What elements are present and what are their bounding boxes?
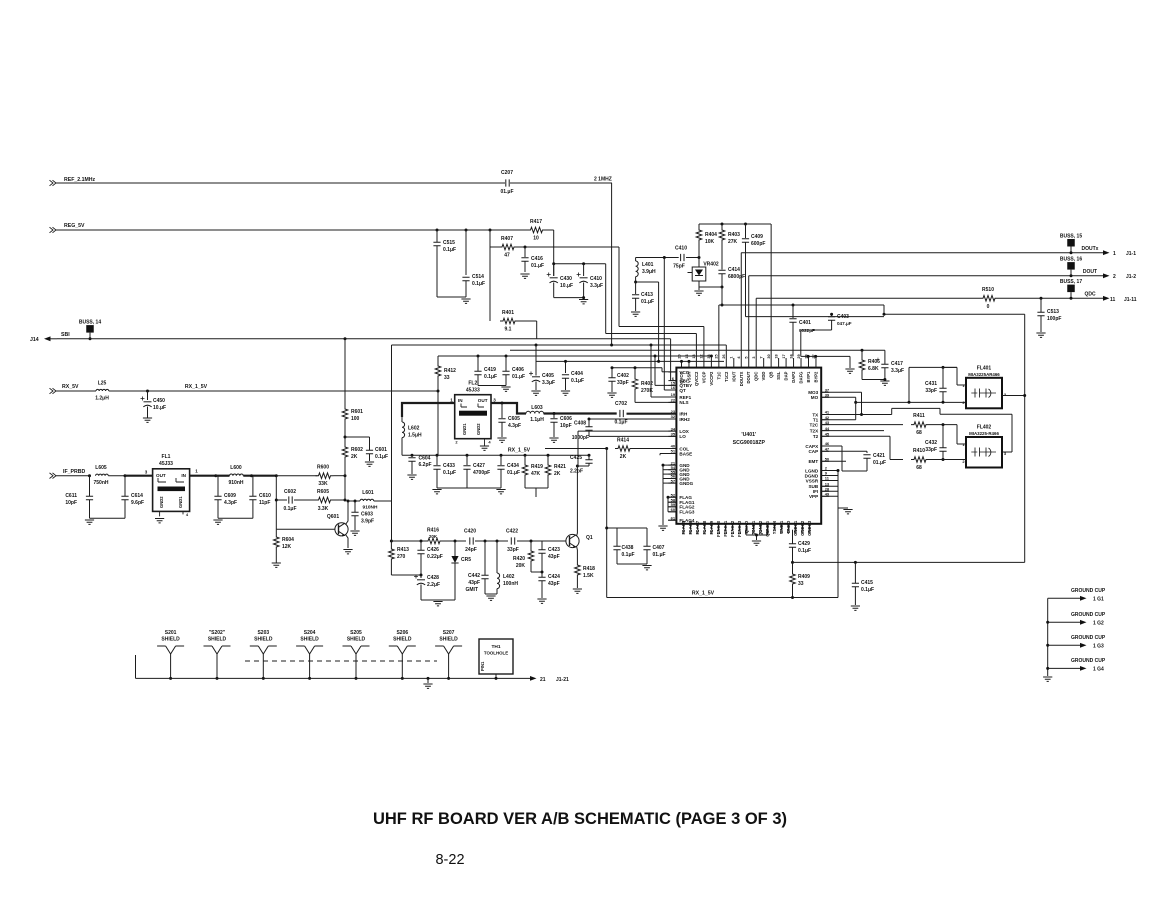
capacitor C425 bbox=[588, 455, 590, 459]
svg-text:01.μF: 01.μF bbox=[500, 189, 513, 195]
capacitor C401 bbox=[792, 305, 794, 318]
svg-text:DOUT: DOUT bbox=[1083, 269, 1097, 275]
svg-text:SBI: SBI bbox=[61, 332, 70, 338]
capacitor C605 bbox=[501, 403, 503, 418]
svg-text:VCCP: VCCP bbox=[701, 371, 706, 383]
svg-text:C428: C428 bbox=[427, 575, 439, 581]
svg-text:FL2: FL2 bbox=[468, 381, 477, 387]
svg-text:QVCC: QVCC bbox=[679, 372, 684, 384]
svg-text:MO: MO bbox=[811, 395, 819, 400]
capacitor C422 bbox=[511, 537, 514, 544]
svg-text:SHIELD: SHIELD bbox=[161, 637, 180, 643]
svg-text:9.1: 9.1 bbox=[505, 327, 512, 333]
ground FL1 bbox=[155, 519, 164, 523]
svg-text:01.μF: 01.μF bbox=[512, 374, 525, 380]
svg-text:R416: R416 bbox=[427, 528, 439, 534]
svg-text:L401: L401 bbox=[642, 262, 654, 268]
capacitor C450 polarized bbox=[147, 391, 149, 400]
wire C414 net L1 bbox=[719, 304, 884, 306]
wire U401 right pin stubs bbox=[821, 391, 829, 393]
wire MO3 to C431 bbox=[909, 366, 957, 368]
wire U401 GND pins chain bbox=[662, 465, 664, 483]
wire U401 FLAG stubs bbox=[668, 496, 676, 498]
svg-text:R410: R410 bbox=[913, 448, 925, 454]
svg-text:50: 50 bbox=[825, 457, 830, 462]
wire R417 out drop bbox=[553, 230, 555, 276]
capacitor C402 bbox=[611, 368, 613, 378]
svg-text:43pF: 43pF bbox=[548, 581, 560, 587]
svg-text:49: 49 bbox=[787, 530, 791, 534]
svg-text:LOX: LOX bbox=[679, 429, 689, 434]
svg-text:01.μF: 01.μF bbox=[873, 460, 886, 466]
svg-text:DOUTx: DOUTx bbox=[1082, 246, 1099, 252]
resistor R418 bbox=[575, 563, 581, 577]
svg-text:VCCP2: VCCP2 bbox=[709, 371, 714, 386]
capacitor C415 bbox=[854, 562, 856, 583]
svg-text:43pF: 43pF bbox=[548, 554, 560, 560]
svg-text:L402: L402 bbox=[503, 574, 515, 580]
svg-text:S206: S206 bbox=[396, 630, 408, 636]
inductor L602 bbox=[401, 417, 403, 422]
svg-text:R601: R601 bbox=[351, 409, 363, 415]
svg-text:2K: 2K bbox=[554, 471, 561, 477]
wire C430 top stub bbox=[553, 264, 555, 276]
svg-text:RX_1_5V: RX_1_5V bbox=[508, 448, 531, 454]
svg-text:S203: S203 bbox=[257, 630, 269, 636]
wire FL401 in1 bbox=[956, 367, 958, 385]
svg-text:CAPX: CAPX bbox=[805, 444, 819, 449]
wire bus A bbox=[605, 264, 607, 334]
wire C611-C614 gnd rail bbox=[90, 517, 126, 519]
capacitor C405 polarized bbox=[535, 344, 538, 347]
resistor R411 bbox=[911, 422, 929, 428]
capacitor C408 1000pF bbox=[588, 419, 590, 427]
svg-text:C417: C417 bbox=[891, 361, 903, 367]
wire Q601 emitter bbox=[346, 535, 349, 549]
svg-text:R600: R600 bbox=[317, 465, 329, 471]
svg-text:3.9pF: 3.9pF bbox=[361, 519, 374, 525]
resistor R407 bbox=[499, 244, 517, 250]
svg-text:0.1μF: 0.1μF bbox=[443, 247, 456, 253]
svg-text:DAP2: DAP2 bbox=[791, 371, 796, 383]
capacitor C427 bbox=[466, 455, 468, 465]
filter FL2 bbox=[455, 395, 491, 439]
svg-text:45: 45 bbox=[825, 432, 830, 437]
wire C442-L402 gnd bbox=[485, 593, 497, 595]
wire ground cup G2 bbox=[1048, 621, 1080, 623]
wire shield dashed link bbox=[245, 660, 437, 662]
capacitor C429 bbox=[792, 530, 794, 544]
svg-text:FL402: FL402 bbox=[977, 425, 992, 431]
svg-text:910nH: 910nH bbox=[228, 480, 243, 486]
svg-text:53: 53 bbox=[759, 530, 763, 534]
svg-text:C401: C401 bbox=[799, 320, 811, 326]
wire T2C line bbox=[821, 424, 903, 426]
svg-text:R605: R605 bbox=[317, 489, 329, 495]
wire LOX line bbox=[578, 430, 676, 432]
ground C404 bbox=[561, 391, 570, 395]
svg-text:RX_1_5V: RX_1_5V bbox=[185, 384, 208, 390]
svg-text:J1-2: J1-2 bbox=[1126, 274, 1136, 280]
filter FL402 bbox=[966, 437, 1002, 468]
svg-text:1000pF: 1000pF bbox=[572, 435, 589, 441]
svg-text:S204: S204 bbox=[304, 630, 316, 636]
capacitor C430 polarized bbox=[550, 277, 558, 279]
inductor L401 bbox=[635, 258, 637, 262]
ground C415 bbox=[851, 606, 860, 610]
svg-text:32: 32 bbox=[671, 414, 676, 419]
wire osc top line bbox=[391, 540, 425, 542]
svg-text:C407: C407 bbox=[653, 545, 665, 551]
svg-text:NLS: NLS bbox=[679, 400, 688, 405]
svg-text:DOUT: DOUT bbox=[746, 371, 751, 383]
capacitor C702 bbox=[620, 410, 623, 417]
svg-text:10pF: 10pF bbox=[65, 500, 77, 506]
resistor R402 bbox=[634, 368, 636, 377]
svg-text:7: 7 bbox=[759, 356, 763, 358]
svg-text:GROUND CUP: GROUND CUP bbox=[1071, 658, 1106, 664]
ground cup gnd bbox=[1043, 677, 1052, 681]
wire QDC arrow bbox=[1103, 296, 1110, 301]
svg-text:VSSH: VSSH bbox=[686, 372, 691, 383]
svg-text:33pF: 33pF bbox=[925, 388, 937, 394]
wire DOUT arrow bbox=[1103, 273, 1110, 278]
capacitor C428 polarized bbox=[420, 575, 422, 578]
inductor L402 bbox=[496, 541, 498, 573]
svg-text:SCG90018ZP: SCG90018ZP bbox=[733, 440, 766, 446]
resistor R404 bbox=[698, 224, 700, 228]
svg-text:0: 0 bbox=[987, 304, 990, 310]
wire C409 net L2 bbox=[746, 316, 885, 318]
resistor R419 bbox=[524, 455, 526, 463]
svg-text:QVCC2: QVCC2 bbox=[694, 371, 699, 386]
resistor R409 bbox=[792, 562, 794, 572]
wire U401 left pin stubs bbox=[668, 371, 676, 373]
svg-text:48: 48 bbox=[794, 530, 798, 534]
svg-text:750nH: 750nH bbox=[93, 480, 108, 486]
svg-text:RX_5V: RX_5V bbox=[62, 384, 79, 390]
wire C414 drop bbox=[721, 287, 723, 305]
capacitor C603 bbox=[354, 500, 357, 503]
svg-text:CR5: CR5 bbox=[461, 557, 471, 563]
wire REF1 drop bbox=[650, 345, 652, 397]
svg-text:1 G3: 1 G3 bbox=[1093, 643, 1104, 649]
wire T1 line bbox=[821, 419, 856, 421]
svg-text:C207: C207 bbox=[501, 170, 513, 176]
wire R601 chain bbox=[344, 337, 347, 340]
resistor R420 bbox=[530, 541, 532, 549]
wire R414 line bbox=[545, 448, 607, 450]
wire R413 bottom bbox=[391, 574, 421, 576]
capacitor C403 bbox=[831, 314, 833, 316]
svg-text:0.1μF: 0.1μF bbox=[614, 420, 627, 426]
svg-text:MIA3225-R466: MIA3225-R466 bbox=[969, 431, 999, 436]
wire BASE stub bbox=[660, 453, 676, 455]
svg-text:TOOLHOLE: TOOLHOLE bbox=[484, 651, 508, 656]
svg-text:60: 60 bbox=[710, 530, 714, 534]
svg-text:EMT: EMT bbox=[808, 459, 818, 464]
wire EMT stub bbox=[821, 460, 846, 462]
svg-text:TH1: TH1 bbox=[491, 644, 500, 650]
svg-text:2.2μF: 2.2μF bbox=[427, 582, 440, 588]
inductor L605 bbox=[96, 474, 109, 476]
ground shield bus bbox=[427, 677, 430, 680]
svg-text:0.1μF: 0.1μF bbox=[622, 552, 635, 558]
svg-text:C409: C409 bbox=[751, 234, 763, 240]
capacitor C442 bbox=[484, 541, 486, 575]
svg-text:GND1: GND1 bbox=[462, 423, 467, 435]
svg-text:55: 55 bbox=[745, 530, 749, 534]
svg-text:0.1μF: 0.1μF bbox=[283, 506, 296, 512]
ground BYP bbox=[845, 369, 854, 373]
wire IF_PRBD input bbox=[50, 473, 57, 479]
capacitor C438 bbox=[616, 528, 618, 546]
svg-text:FLAG3: FLAG3 bbox=[679, 510, 695, 515]
svg-text:R420: R420 bbox=[513, 556, 525, 562]
svg-text:1.1μH: 1.1μH bbox=[530, 417, 544, 423]
svg-text:33pF: 33pF bbox=[617, 380, 629, 386]
ground R604 bbox=[272, 563, 281, 567]
svg-text:L601: L601 bbox=[362, 490, 374, 496]
ground C604 bbox=[407, 475, 416, 479]
resistor R403 bbox=[721, 224, 723, 228]
wire C414 to gnd bbox=[699, 286, 722, 288]
svg-text:IF_PRBD: IF_PRBD bbox=[63, 469, 85, 475]
capacitor C609 bbox=[217, 476, 219, 496]
ground C433 bbox=[432, 490, 441, 494]
svg-text:63: 63 bbox=[689, 530, 693, 534]
svg-text:1: 1 bbox=[730, 356, 734, 358]
svg-text:10pF: 10pF bbox=[560, 423, 572, 429]
svg-text:50: 50 bbox=[780, 530, 784, 534]
wire bus C 2.1MHZ bbox=[392, 344, 727, 346]
svg-text:4.3pF: 4.3pF bbox=[508, 423, 521, 429]
svg-text:Q601: Q601 bbox=[327, 514, 339, 520]
svg-text:56: 56 bbox=[738, 530, 742, 534]
ground bottom pins bbox=[752, 541, 761, 545]
svg-text:OUT: OUT bbox=[478, 398, 488, 403]
wire L401 top rail bbox=[636, 257, 679, 259]
wire U401 top pin stubs bbox=[681, 361, 683, 367]
capacitor C614 bbox=[124, 476, 126, 496]
wire bus G VCC bbox=[612, 367, 662, 369]
svg-text:J14: J14 bbox=[30, 337, 39, 343]
svg-text:T1C2: T1C2 bbox=[724, 371, 729, 382]
capacitor C433 bbox=[436, 455, 438, 465]
svg-text:C423: C423 bbox=[548, 547, 560, 553]
svg-text:PIN1: PIN1 bbox=[480, 661, 485, 671]
svg-text:01.μF: 01.μF bbox=[641, 299, 654, 305]
svg-text:600pF: 600pF bbox=[751, 241, 765, 247]
ground C513 bbox=[1036, 333, 1045, 337]
svg-text:20K: 20K bbox=[429, 534, 438, 539]
ground C402 bbox=[607, 393, 616, 397]
svg-text:BUSS, 17: BUSS, 17 bbox=[1060, 279, 1082, 285]
svg-text:S207: S207 bbox=[443, 630, 455, 636]
ground C410 bbox=[579, 300, 588, 304]
svg-text:QB: QB bbox=[769, 372, 774, 378]
svg-text:S205: S205 bbox=[350, 630, 362, 636]
svg-text:C426: C426 bbox=[427, 547, 439, 553]
svg-text:SHIELD: SHIELD bbox=[208, 637, 227, 643]
capacitor C434 bbox=[500, 455, 502, 465]
svg-text:BYP1: BYP1 bbox=[806, 371, 811, 383]
svg-text:C415: C415 bbox=[861, 580, 873, 586]
svg-text:QT: QT bbox=[679, 388, 686, 393]
svg-text:R604: R604 bbox=[282, 537, 294, 543]
toolhole TH1 bbox=[479, 639, 513, 674]
svg-text:0.1μF: 0.1μF bbox=[472, 281, 485, 287]
svg-text:T2X: T2X bbox=[810, 428, 819, 433]
svg-text:"S202": "S202" bbox=[209, 630, 226, 636]
wire Q1 collector bbox=[576, 466, 579, 536]
wire DOUT rail bbox=[749, 275, 1103, 277]
svg-text:SSL: SSL bbox=[776, 371, 781, 380]
wire ground cup G4 bbox=[1048, 667, 1080, 669]
wire thick FL2 in bbox=[402, 403, 455, 417]
svg-text:C442: C442 bbox=[468, 573, 480, 579]
wire bus D bbox=[510, 349, 885, 351]
svg-text:R414: R414 bbox=[617, 438, 629, 444]
svg-text:C450: C450 bbox=[153, 398, 165, 404]
op-amp U401 body bbox=[676, 368, 821, 524]
resistor R600 bbox=[316, 473, 334, 479]
wire bus E bbox=[438, 355, 711, 357]
svg-text:C513: C513 bbox=[1047, 309, 1059, 315]
svg-text:R413: R413 bbox=[397, 547, 409, 553]
svg-text:T2: T2 bbox=[813, 434, 819, 439]
wire REG_5V rail bbox=[50, 227, 57, 233]
svg-text:4.3pF: 4.3pF bbox=[224, 500, 237, 506]
svg-text:GMIT: GMIT bbox=[466, 587, 479, 593]
svg-text:C402: C402 bbox=[617, 373, 629, 379]
svg-text:UHF RF BOARD VER A/B SCHEMATIC: UHF RF BOARD VER A/B SCHEMATIC (PAGE 3 O… bbox=[373, 810, 787, 828]
svg-text:FL1: FL1 bbox=[162, 454, 171, 460]
svg-text:25: 25 bbox=[715, 354, 719, 358]
svg-text:01.μF: 01.μF bbox=[531, 263, 544, 269]
svg-text:4700pF: 4700pF bbox=[473, 470, 490, 476]
svg-text:30: 30 bbox=[767, 354, 771, 358]
svg-text:C610: C610 bbox=[259, 493, 271, 499]
svg-text:100: 100 bbox=[351, 416, 360, 422]
wire L401 bottom branch bbox=[636, 281, 659, 283]
svg-text:100nH: 100nH bbox=[503, 581, 518, 587]
wire R602-junctions bbox=[344, 476, 346, 500]
svg-text:SHIELD: SHIELD bbox=[347, 637, 366, 643]
capacitor C410 75pF bbox=[681, 254, 684, 261]
wire MO3 line bbox=[821, 391, 861, 393]
svg-text:C422: C422 bbox=[506, 529, 518, 535]
svg-text:R421: R421 bbox=[554, 464, 566, 470]
svg-text:R602: R602 bbox=[351, 447, 363, 453]
svg-text:T1C: T1C bbox=[716, 372, 721, 380]
svg-text:2K: 2K bbox=[351, 454, 358, 460]
svg-text:47K: 47K bbox=[531, 471, 541, 477]
svg-text:21: 21 bbox=[540, 677, 546, 683]
svg-text:9.6pF: 9.6pF bbox=[131, 500, 144, 506]
capacitor C423 bbox=[541, 541, 543, 550]
wire R411 to FL402 bbox=[956, 425, 958, 444]
svg-text:45J33: 45J33 bbox=[466, 388, 480, 394]
wire SBI rail bbox=[57, 338, 671, 340]
svg-text:'U401': 'U401' bbox=[741, 432, 756, 438]
wire C609-C610 gnd rail bbox=[218, 517, 253, 519]
resistor R417 bbox=[528, 227, 546, 233]
wire Q601 collector bbox=[346, 501, 349, 525]
svg-text:R412: R412 bbox=[444, 368, 456, 374]
ground C606 bbox=[549, 438, 558, 442]
svg-text:44: 44 bbox=[825, 426, 830, 431]
ground C413 bbox=[631, 312, 640, 316]
svg-text:C427: C427 bbox=[473, 463, 485, 469]
capacitor C414 bbox=[721, 266, 723, 270]
diode CR5 bbox=[454, 541, 456, 556]
svg-text:BUSS, 16: BUSS, 16 bbox=[1060, 257, 1082, 263]
resistor R510 bbox=[980, 296, 998, 302]
svg-text:C429: C429 bbox=[798, 541, 810, 547]
svg-text:MIA3225AR466: MIA3225AR466 bbox=[968, 372, 1000, 377]
svg-text:VDD: VDD bbox=[761, 372, 766, 381]
ground C424 bbox=[537, 599, 546, 603]
svg-text:C410: C410 bbox=[590, 276, 602, 282]
capacitor C420 bbox=[420, 540, 423, 543]
svg-text:13: 13 bbox=[692, 354, 696, 358]
filter FL1 bbox=[153, 469, 190, 512]
wire C438 C407 top bbox=[606, 449, 608, 598]
wire QDC rail bbox=[756, 297, 980, 299]
svg-text:51: 51 bbox=[671, 449, 676, 454]
svg-text:0.1μF: 0.1μF bbox=[798, 548, 811, 554]
capacitor C417 bbox=[884, 350, 886, 364]
svg-text:C515: C515 bbox=[443, 240, 455, 246]
svg-text:01.μF: 01.μF bbox=[653, 552, 666, 558]
svg-text:C605: C605 bbox=[508, 416, 520, 422]
svg-text:0.1μF: 0.1μF bbox=[443, 470, 456, 476]
svg-text:57: 57 bbox=[731, 530, 735, 534]
svg-text:1 G4: 1 G4 bbox=[1093, 666, 1104, 672]
svg-text:C514: C514 bbox=[472, 274, 484, 280]
wire C410cap junction drop bbox=[663, 258, 665, 391]
svg-text:0.1μF: 0.1μF bbox=[861, 587, 874, 593]
wire L600-out bbox=[243, 475, 276, 477]
svg-text:CAP: CAP bbox=[808, 449, 818, 454]
svg-text:J1-1: J1-1 bbox=[1126, 251, 1136, 257]
wire sub gnd stub bbox=[838, 507, 848, 509]
resistor R401 bbox=[500, 318, 518, 324]
svg-text:3.3μF: 3.3μF bbox=[891, 368, 904, 374]
svg-text:C404: C404 bbox=[571, 371, 583, 377]
wire bottom pins gnd bbox=[746, 534, 768, 536]
svg-text:8-22: 8-22 bbox=[435, 852, 464, 868]
svg-text:REF1: REF1 bbox=[679, 395, 691, 400]
svg-text:DAFG: DAFG bbox=[799, 372, 804, 384]
diode VR402 bbox=[698, 242, 700, 267]
svg-text:IOUT: IOUT bbox=[731, 371, 736, 381]
svg-text:47: 47 bbox=[825, 447, 830, 452]
wire mid rail bbox=[402, 454, 589, 456]
filter FL401 bbox=[966, 378, 1002, 409]
svg-text:5: 5 bbox=[745, 356, 749, 358]
svg-text:C603: C603 bbox=[361, 512, 373, 518]
svg-text:C702: C702 bbox=[615, 401, 627, 407]
svg-text:C405: C405 bbox=[542, 373, 554, 379]
buss BUSS,14 bbox=[86, 325, 94, 333]
resistor R604 bbox=[275, 529, 277, 535]
wire shield bus bbox=[136, 677, 531, 679]
resistor R605 bbox=[316, 497, 334, 503]
wire FL401 out bbox=[1002, 395, 1025, 397]
wire R407 line drop bbox=[618, 247, 620, 327]
